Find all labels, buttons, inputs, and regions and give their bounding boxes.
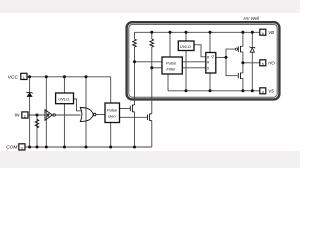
node VB-UVLO2 [185, 31, 188, 34]
wire R2 top lead [151, 32, 153, 39]
wire Pulse Gen bottom lead [110, 123, 112, 148]
Pulse Gen block U4 [105, 103, 120, 123]
node VS-Q2 [241, 89, 244, 92]
wire Pulse Gen to M1 gate [120, 108, 131, 110]
svg-text:VCC: VCC [8, 74, 19, 80]
svg-text:5: 5 [262, 62, 264, 66]
node VB-Q1 [241, 31, 244, 34]
node COM-Rin [36, 146, 39, 149]
node VB-R2 [150, 31, 153, 34]
wire inverter output to NOR input [55, 114, 80, 116]
wire Q2 source [241, 79, 243, 91]
wire Pulse Filter bottom lead [167, 74, 169, 91]
node COM-x48 [45, 146, 48, 149]
pin 5 HO [260, 60, 276, 67]
transistor M1 (level shift) [130, 105, 134, 112]
UVLO block (high side) U6 [178, 41, 194, 51]
NOR gate U3 [80, 108, 96, 122]
node COM-NOR [85, 146, 88, 149]
pin 6 VB [260, 29, 274, 36]
svg-text:IN: IN [15, 113, 20, 119]
Pulse Filter block U5 [162, 57, 182, 74]
wire UVLO top lead [63, 77, 65, 93]
wire R2 node to Pulse Filter [152, 67, 162, 69]
resistor R2 [150, 39, 154, 47]
node VB-PulseFilter [169, 31, 172, 34]
wire Q1 drain [241, 32, 243, 46]
svg-text:Pulse: Pulse [107, 108, 118, 113]
wire UVLO to NOR top input [74, 99, 81, 111]
wire UVLO2 to RS latch R input [194, 45, 206, 57]
node IN-R [36, 114, 39, 117]
svg-text:UVLO: UVLO [180, 44, 191, 49]
wire UVLO bottom lead [63, 104, 65, 147]
wire IN line [28, 114, 45, 116]
wire gate bus [226, 49, 238, 76]
svg-text:COM: COM [6, 145, 17, 151]
node VCC-x48 [45, 75, 48, 78]
wire VCC-COM crossing through NOR gate [85, 77, 87, 147]
node COM-M1 [133, 146, 136, 149]
svg-text:1: 1 [23, 76, 25, 80]
wire M1 source to COM [134, 112, 136, 147]
wire Q1 source [241, 52, 243, 63]
node VS-zener [251, 89, 254, 92]
wire Q2 drain [241, 63, 243, 73]
wire VS rail [168, 90, 260, 92]
svg-text:VS: VS [268, 88, 274, 93]
wire RS latch top lead [209, 32, 211, 52]
svg-text:Q: Q [211, 55, 214, 59]
resistor Rin [35, 119, 39, 128]
pin 3 COM [6, 144, 25, 151]
wire zener clamp column [251, 32, 253, 91]
wire VCC rail [27, 76, 111, 78]
node R2-PulseFilter [150, 66, 153, 69]
zener diode D2 [249, 47, 255, 53]
node VCC-NOR [85, 75, 88, 78]
pin 1 VCC [8, 73, 27, 80]
wire UVLO2 bottom lead [185, 51, 187, 91]
node VB-zener [251, 31, 254, 34]
node COM-D1 [28, 146, 31, 149]
wire M1 drain to R1 [134, 47, 136, 105]
node R1-PulseFilter [133, 60, 136, 63]
svg-text:6: 6 [262, 32, 264, 36]
transistor M2 (level shift) [148, 114, 152, 121]
wire R1 top lead [134, 32, 136, 39]
pin 2 IN [15, 112, 28, 119]
svg-text:HV Well: HV Well [244, 16, 260, 21]
HV well outer border [127, 22, 280, 99]
node COM-PulseGen [109, 146, 112, 149]
wire IN pulldown branch [36, 115, 38, 147]
node Q-gatebus [225, 56, 228, 59]
inverter with hysteresis U1 [45, 110, 55, 120]
svg-text:3: 3 [21, 146, 23, 150]
node VS-RS [209, 89, 212, 92]
node HO-Q1Q2 [241, 61, 244, 64]
transistor Q2 (pull-down nMOS) [238, 73, 240, 80]
svg-text:UVLO: UVLO [58, 97, 69, 102]
wire zener D1 branch [29, 77, 31, 147]
wire Pulse Filter top lead [169, 32, 171, 57]
node VCC-D1 [28, 75, 31, 78]
svg-text:Gen: Gen [108, 114, 116, 119]
top gray band [0, 0, 300, 13]
svg-text:Pulse: Pulse [166, 60, 177, 65]
node VB-RS [209, 31, 212, 34]
wire R1 node to Pulse Filter [135, 61, 163, 63]
resistor R1 [133, 39, 137, 47]
UVLO block (low side) U2 [56, 93, 74, 104]
svg-text:HO: HO [268, 60, 275, 65]
wire NOR output to Pulse Gen [96, 114, 105, 116]
wire Pulse Filter out1 to RS [182, 61, 206, 63]
wire VB rail [135, 31, 260, 33]
node COM-UVLO [63, 146, 66, 149]
svg-text:Filter: Filter [166, 66, 176, 71]
wire RS latch bottom lead [209, 73, 211, 91]
wire HO rail [243, 62, 260, 64]
transistor Q1 (pull-up pMOS) [235, 46, 240, 52]
wire VCC to Pulse Gen top [110, 77, 112, 103]
wire UVLO2 top lead [185, 32, 187, 41]
wire M2 source to COM corner [151, 121, 153, 147]
wire M2 drain to R2 [151, 47, 153, 114]
pin 4 VS [260, 88, 274, 95]
svg-text:2: 2 [24, 115, 26, 119]
zener diode D1 [27, 92, 33, 97]
bottom gray band [0, 151, 300, 168]
wire Pulse Filter out2 to RS [182, 67, 206, 69]
node VS-UVLO2 [185, 89, 188, 92]
wire Pulse Gen to M2 gate [120, 116, 148, 118]
svg-text:4: 4 [262, 90, 264, 94]
RS latch U7 [206, 53, 216, 74]
wire VCC-COM crossing through inverter [45, 77, 47, 147]
svg-text:VB: VB [268, 30, 274, 35]
wire Q output to gate bus [216, 56, 226, 58]
wire COM rail [25, 146, 152, 148]
HV well inner border [129, 24, 277, 97]
node VCC-UVLO [63, 75, 66, 78]
